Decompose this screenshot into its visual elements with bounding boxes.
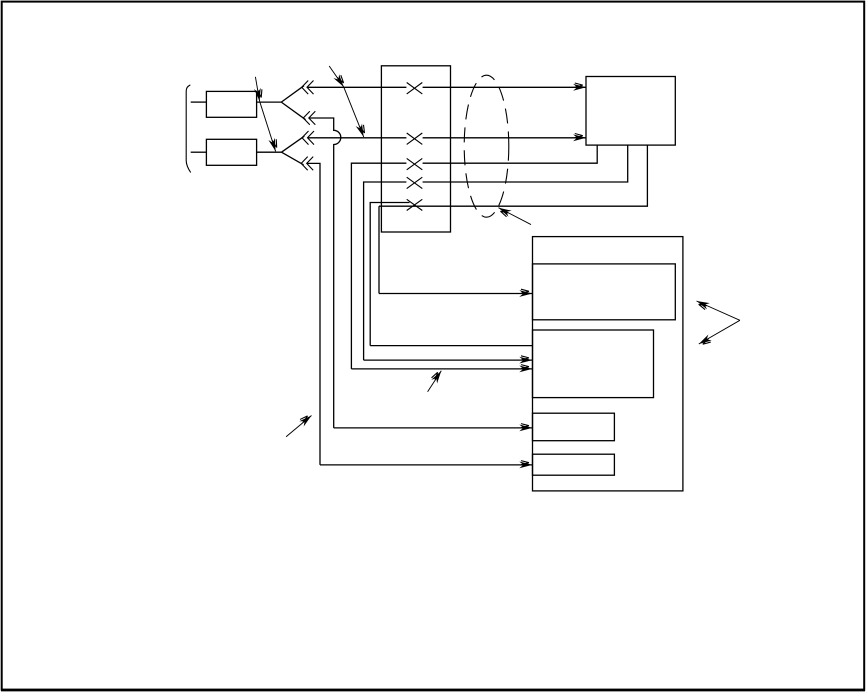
disconnect D3 (double chevron) — [302, 131, 314, 145]
disconnect D2 (double chevron) — [303, 111, 315, 125]
wire from D2: horizontal then down with hop over line 2 — [309, 118, 341, 428]
wire from transmitter 2 to node B — [257, 151, 282, 153]
wire from D4: horizontal then down — [307, 163, 320, 465]
disconnect D1 (double chevron) — [302, 81, 314, 95]
pin P1 — [407, 83, 423, 94]
leader arrow 6 (double pointer to computer cards) — [697, 301, 740, 344]
wire node A to disconnect D2 — [281, 102, 305, 120]
wire line 5a run to computer edge (no arrowhead) — [370, 345, 532, 347]
bulkhead feed-through (dashed ellipse) — [464, 75, 509, 217]
wire line 4 right: pin P4 to indicator bottom — [423, 145, 628, 182]
wire line 5a: pin P5 left lead to drop — [370, 203, 409, 346]
wire line 5b drop into card 1 — [378, 206, 380, 293]
wire line 3 left: pin P3 to drop — [351, 163, 406, 369]
computer outer box — [533, 237, 683, 491]
leader arrow 4 (to card 2 wire) — [428, 371, 442, 392]
leader arrow 5 (to D4 drop wire) — [286, 416, 311, 437]
card 4 — [533, 454, 615, 475]
card 3 — [533, 413, 615, 441]
indicator box — [586, 77, 675, 146]
wire stub left of transmitter 1 — [191, 101, 207, 103]
wire from D2 drop into card 3 — [334, 427, 533, 429]
leader arrow 2 (two heads, to transmitter outputs) — [255, 77, 275, 152]
wire line 5b: through pin P5 to indicator bottom — [379, 145, 647, 206]
pin P4 — [407, 177, 423, 188]
wire line 4 left: pin P4 to drop — [364, 182, 407, 360]
card 2 — [533, 330, 654, 398]
wire from transmitter 1 to node A — [257, 101, 282, 103]
wire node B to disconnect D3 — [282, 136, 305, 152]
leader arrow 3 (to bulkhead ellipse) — [499, 208, 532, 225]
wire node B to disconnect D4 — [282, 152, 304, 165]
wire node A to disconnect D1 — [281, 86, 304, 102]
connector J1 body — [381, 66, 450, 232]
wire line 4 drop into card 2 — [364, 359, 533, 361]
node B (transmitter 2 fan-out junction) — [282, 136, 305, 165]
wire line 3 drop into card 2 — [351, 368, 532, 370]
transmitter box 1 — [206, 91, 256, 117]
card 1 — [533, 264, 676, 320]
node A (transmitter 1 fan-out junction) — [281, 86, 305, 120]
wire line 2: D3 to indicator (through pin P2) — [308, 137, 407, 139]
wire line 1: D1 to indicator (through pin P1) — [307, 86, 406, 88]
brace (transmitter group) — [186, 85, 191, 173]
pin P5 — [407, 199, 423, 210]
wire stub left of transmitter 2 — [191, 151, 207, 153]
pin P3 — [407, 158, 423, 169]
transmitter box 2 — [206, 139, 256, 165]
pin P2 — [407, 133, 423, 144]
wire from D4 drop into card 4 — [320, 464, 532, 466]
wire line 3 right: pin P3 to indicator bottom — [423, 145, 598, 163]
leader arrow 1 (two heads, to line 1 and line 2) — [329, 66, 364, 137]
disconnect D4 (double chevron) — [301, 157, 313, 171]
